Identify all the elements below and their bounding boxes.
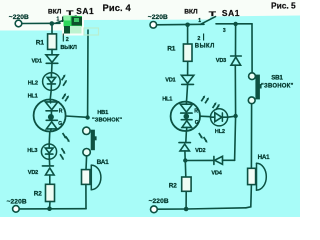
svg-text:HL3: HL3: [27, 148, 37, 154]
svg-text:~220В: ~220В: [149, 198, 169, 205]
svg-text:HL2: HL2: [28, 80, 38, 86]
svg-text:VD1: VD1: [165, 78, 175, 84]
svg-text:R1: R1: [36, 39, 45, 46]
svg-text:ВА1: ВА1: [97, 159, 110, 166]
svg-text:HL1: HL1: [162, 96, 172, 102]
svg-text:R: R: [194, 108, 198, 114]
svg-text:Рис. 4: Рис. 4: [103, 2, 132, 13]
svg-text:~220В: ~220В: [148, 14, 168, 21]
svg-text:VD2: VD2: [195, 148, 205, 154]
svg-text:R: R: [59, 108, 63, 114]
svg-text:~220В: ~220В: [7, 198, 27, 205]
svg-text:SA1: SA1: [76, 6, 94, 16]
svg-text:ВЫКЛ: ВЫКЛ: [60, 45, 77, 51]
svg-text:1: 1: [57, 17, 60, 23]
svg-text:SB1: SB1: [271, 74, 283, 81]
svg-text:3: 3: [223, 28, 226, 34]
svg-text:HL2: HL2: [215, 129, 225, 135]
svg-text:R2: R2: [169, 183, 177, 190]
svg-text:НА1: НА1: [258, 154, 271, 161]
svg-text:HL1: HL1: [28, 94, 38, 100]
svg-text:ВКЛ: ВКЛ: [184, 9, 198, 16]
svg-text:G: G: [195, 120, 199, 126]
svg-text:VD4: VD4: [211, 170, 222, 176]
svg-text:"ЗВОНОК": "ЗВОНОК": [261, 83, 294, 89]
svg-text:НВ1: НВ1: [97, 110, 109, 116]
svg-text:G: G: [58, 121, 62, 127]
svg-text:ВЫКЛ: ВЫКЛ: [195, 43, 215, 49]
svg-text:VD3: VD3: [216, 58, 226, 64]
svg-text:~220В: ~220В: [9, 14, 29, 21]
svg-text:Рис. 5: Рис. 5: [271, 0, 296, 10]
svg-text:ВКЛ: ВКЛ: [48, 8, 62, 15]
svg-text:VD2: VD2: [28, 170, 38, 176]
svg-text:R1: R1: [167, 46, 176, 53]
svg-text:VD1: VD1: [32, 59, 42, 65]
svg-text:"ЗВОНОК": "ЗВОНОК": [92, 118, 122, 124]
svg-text:2: 2: [197, 36, 200, 42]
svg-text:1: 1: [198, 18, 201, 24]
svg-text:2: 2: [66, 37, 69, 43]
svg-text:SA1: SA1: [222, 8, 240, 18]
svg-text:R2: R2: [34, 190, 42, 197]
